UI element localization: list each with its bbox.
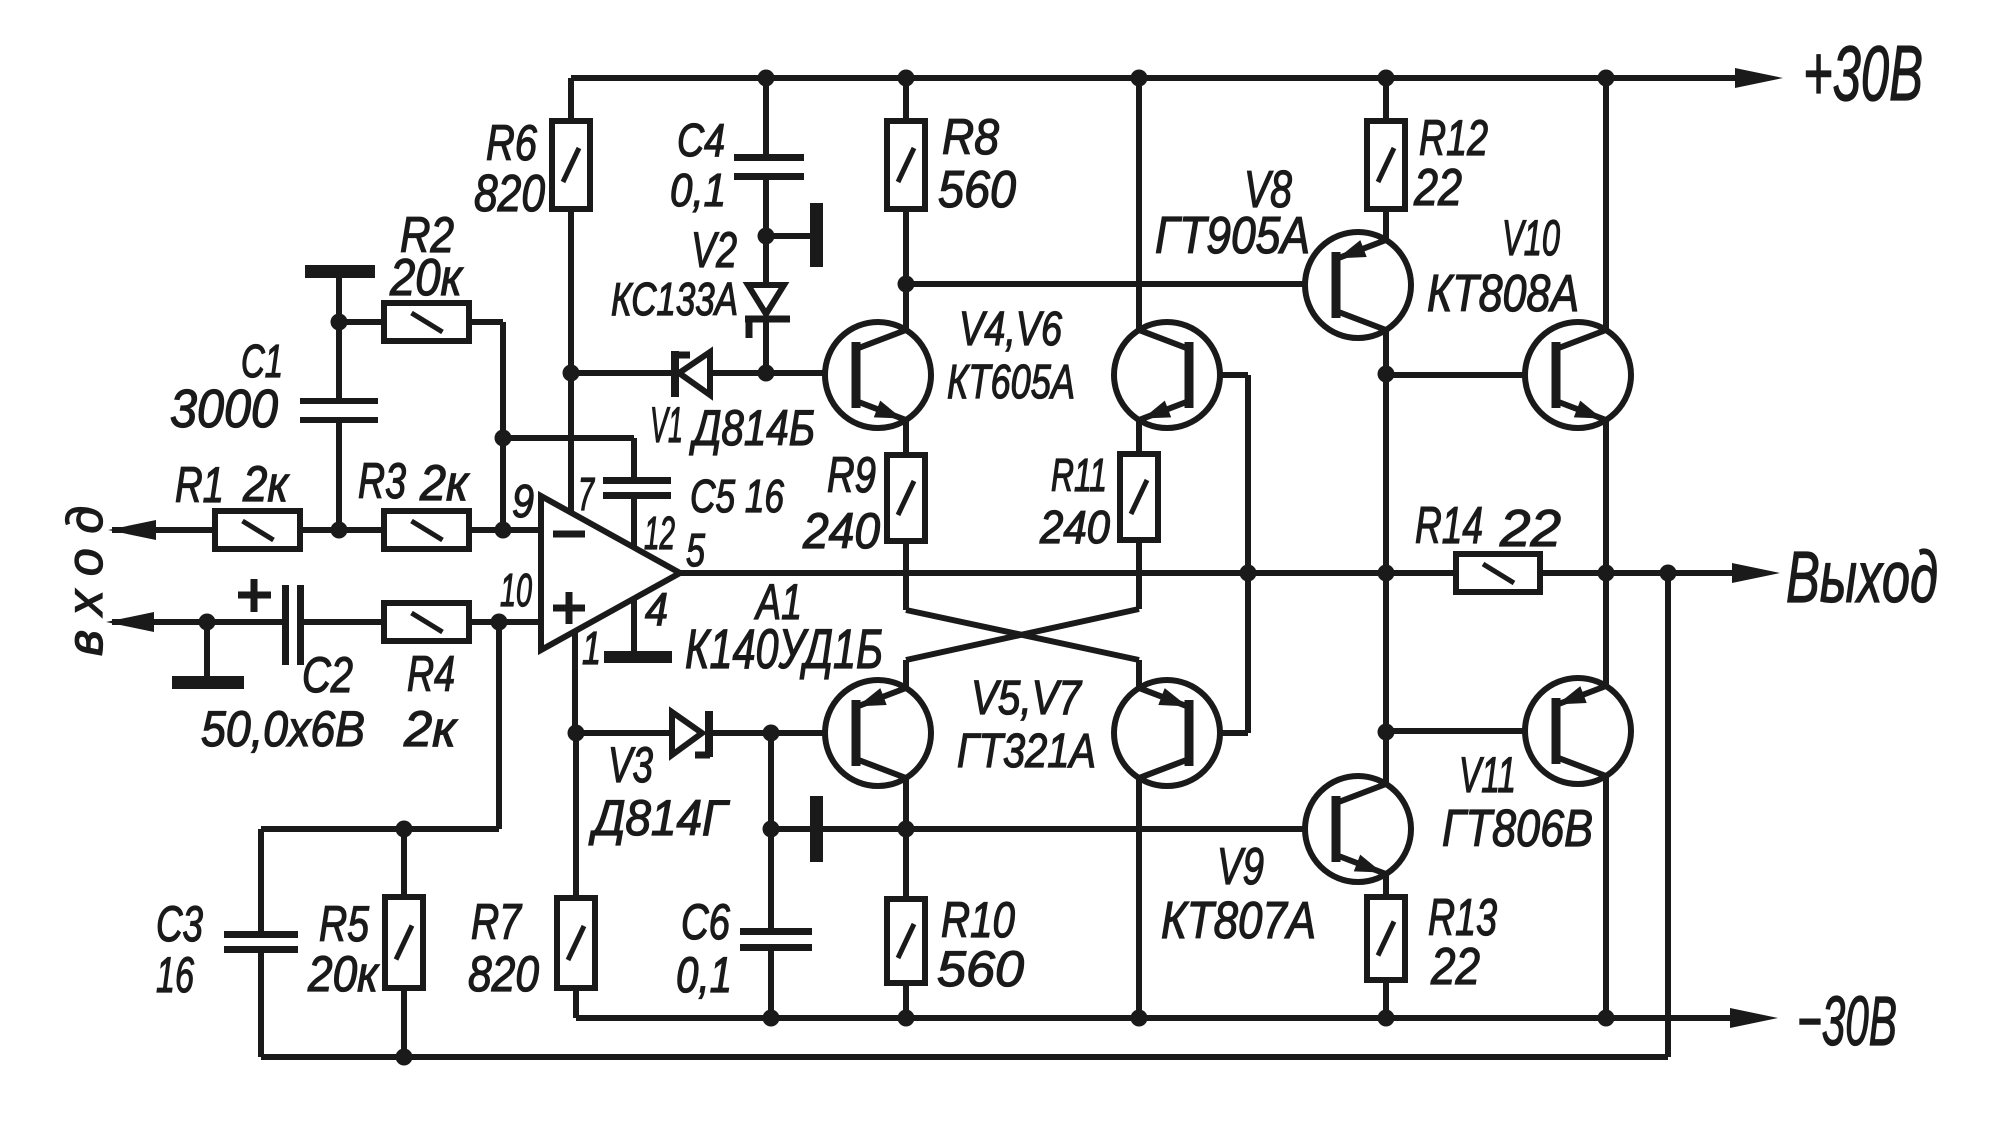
svg-text:5: 5 bbox=[686, 524, 705, 576]
svg-text:22: 22 bbox=[1430, 938, 1480, 996]
svg-text:R4: R4 bbox=[407, 646, 455, 702]
svg-text:R12: R12 bbox=[1419, 110, 1488, 166]
svg-text:240: 240 bbox=[1039, 501, 1110, 553]
svg-text:Выход: Выход bbox=[1786, 538, 1938, 618]
svg-text:V11: V11 bbox=[1459, 747, 1516, 803]
svg-text:2к: 2к bbox=[403, 701, 458, 757]
svg-text:R6: R6 bbox=[486, 115, 537, 171]
svg-text:С5 16: С5 16 bbox=[690, 470, 784, 522]
svg-text:R7: R7 bbox=[471, 894, 523, 950]
svg-text:R14: R14 bbox=[1415, 497, 1483, 555]
svg-text:КТ605А: КТ605А bbox=[947, 356, 1075, 409]
svg-text:V2: V2 bbox=[691, 222, 737, 278]
svg-text:4: 4 bbox=[645, 583, 668, 635]
svg-text:20к: 20к bbox=[307, 946, 380, 1002]
svg-text:ГТ806В: ГТ806В bbox=[1442, 800, 1593, 858]
svg-text:0,1: 0,1 bbox=[670, 164, 726, 216]
svg-text:2к: 2к bbox=[419, 455, 470, 511]
svg-text:К140УД1Б: К140УД1Б bbox=[685, 617, 883, 680]
svg-text:7: 7 bbox=[578, 468, 595, 520]
svg-text:560: 560 bbox=[938, 161, 1016, 219]
svg-text:R8: R8 bbox=[942, 109, 999, 165]
svg-text:С3: С3 bbox=[156, 896, 203, 952]
svg-text:0,1: 0,1 bbox=[676, 947, 732, 1003]
svg-text:С4: С4 bbox=[677, 114, 725, 166]
svg-text:Д814Г: Д814Г bbox=[588, 790, 730, 846]
svg-text:1: 1 bbox=[582, 622, 601, 674]
svg-text:16: 16 bbox=[156, 947, 194, 1003]
svg-text:R5: R5 bbox=[319, 896, 369, 952]
svg-text:R10: R10 bbox=[941, 892, 1015, 948]
svg-text:V9: V9 bbox=[1217, 838, 1264, 896]
svg-text:240: 240 bbox=[802, 503, 880, 559]
svg-text:12: 12 bbox=[644, 507, 675, 559]
svg-text:−30В: −30В bbox=[1797, 982, 1897, 1060]
svg-text:V10: V10 bbox=[1502, 210, 1560, 266]
svg-text:КТ808А: КТ808А bbox=[1427, 265, 1579, 323]
svg-text:820: 820 bbox=[474, 165, 545, 223]
svg-text:ГТ321А: ГТ321А bbox=[957, 725, 1096, 778]
svg-text:ГТ905А: ГТ905А bbox=[1155, 207, 1310, 265]
svg-text:Д814Б: Д814Б bbox=[689, 400, 815, 456]
svg-text:22: 22 bbox=[1499, 500, 1561, 558]
svg-text:R3: R3 bbox=[358, 453, 406, 509]
svg-text:50,0х6В: 50,0х6В bbox=[201, 701, 365, 757]
svg-text:560: 560 bbox=[937, 941, 1024, 997]
svg-text:820: 820 bbox=[468, 946, 539, 1002]
svg-text:V5,V7: V5,V7 bbox=[971, 672, 1083, 725]
svg-text:R1: R1 bbox=[175, 457, 224, 513]
svg-text:3000: 3000 bbox=[170, 379, 278, 439]
svg-text:КС133А: КС133А bbox=[611, 273, 738, 325]
svg-text:КТ807А: КТ807А bbox=[1161, 892, 1316, 950]
svg-text:С2: С2 bbox=[302, 647, 353, 703]
svg-text:9: 9 bbox=[512, 475, 534, 527]
svg-text:20к: 20к bbox=[389, 249, 464, 307]
svg-text:+30В: +30В bbox=[1803, 29, 1923, 117]
svg-text:R11: R11 bbox=[1051, 449, 1107, 501]
svg-text:R9: R9 bbox=[827, 447, 876, 503]
svg-text:С6: С6 bbox=[681, 894, 730, 950]
svg-text:22: 22 bbox=[1413, 159, 1462, 217]
svg-text:2к: 2к bbox=[242, 456, 290, 512]
svg-text:V4,V6: V4,V6 bbox=[959, 303, 1062, 356]
svg-text:10: 10 bbox=[500, 564, 532, 616]
svg-text:V1: V1 bbox=[650, 397, 683, 453]
svg-text:V3: V3 bbox=[608, 737, 653, 793]
